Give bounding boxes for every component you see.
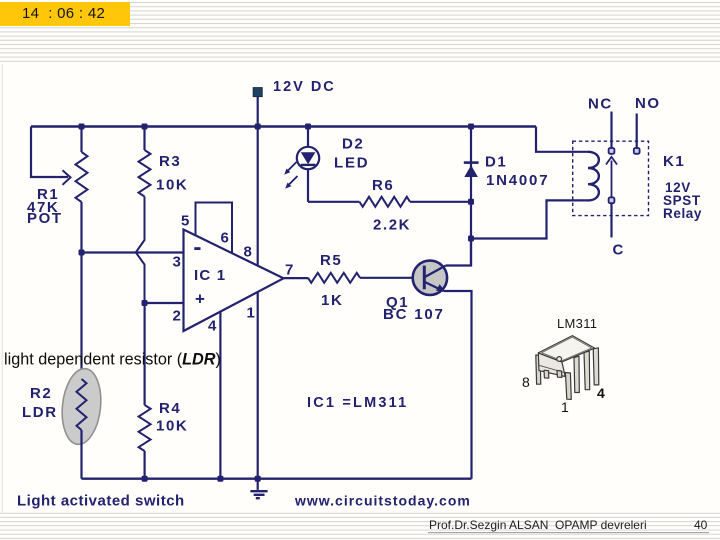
wire D2 bottom [307, 169, 309, 202]
wire divider node to pin 2 [145, 302, 184, 304]
wire collector [446, 239, 471, 266]
resistor R6 [360, 197, 411, 207]
svg-text:C: C [613, 242, 625, 259]
wire relay feed [536, 127, 588, 152]
svg-text:40: 40 [694, 518, 708, 532]
svg-text:IC1 =LM311: IC1 =LM311 [307, 395, 408, 411]
node pin1 ground [255, 476, 261, 482]
node R3 top rail [142, 124, 148, 130]
wire pot wiper feedback [31, 127, 68, 178]
node R1 top rail [79, 124, 85, 130]
svg-text:5: 5 [181, 213, 191, 230]
resistor R4 [139, 405, 151, 451]
relay K1 dashed box [573, 141, 649, 215]
wire R1 bottom to LDR [80, 202, 82, 379]
wire D2 top [307, 127, 309, 148]
wire pin5-6 balance loop [196, 203, 233, 253]
transistor Q1 collector stroke [425, 266, 446, 278]
node pin4 ground [217, 476, 223, 482]
node D1 rail [468, 124, 474, 130]
svg-text:LED: LED [334, 155, 369, 172]
wire NO contact [636, 114, 638, 148]
svg-text:R4: R4 [159, 400, 181, 417]
svg-text:2.2K: 2.2K [373, 217, 411, 234]
svg-text:Relay: Relay [663, 206, 702, 221]
svg-text:1: 1 [561, 399, 569, 415]
node relay return [468, 236, 474, 242]
wire pin 4 to ground rail [219, 311, 221, 478]
svg-text:10K: 10K [156, 418, 188, 435]
LDR envelope [59, 367, 105, 447]
wire emitter [444, 291, 472, 479]
12V DC terminal [253, 88, 262, 97]
svg-text:8: 8 [522, 374, 530, 390]
relay K1 coil [588, 152, 599, 201]
wire NC contact [610, 112, 612, 148]
transistor Q1 base bar [423, 266, 426, 290]
svg-text:Prof.Dr.Sezgin ALSAN OPAMP de: Prof.Dr.Sezgin ALSAN OPAMP devreleri [429, 518, 647, 532]
svg-text:2: 2 [173, 308, 183, 325]
svg-text:IC 1: IC 1 [194, 267, 226, 284]
relay NO contact circle [634, 148, 640, 154]
transistor Q1 emitter stroke [425, 282, 444, 291]
svg-text:4: 4 [597, 385, 605, 401]
wire R3 bottom with crossover jog [136, 197, 145, 304]
wire R1 top [80, 127, 82, 153]
relay common contact circle [609, 197, 615, 203]
svg-text:1K: 1K [321, 292, 343, 309]
wire R4 bottom [144, 451, 146, 479]
wire R6 to D1 node [410, 201, 471, 203]
svg-text:4: 4 [208, 318, 218, 335]
wire LED to R6 [308, 201, 360, 203]
transistor Q1 emitter arrow [436, 284, 445, 291]
timestamp header [0, 2, 130, 26]
node divider mid [142, 300, 148, 306]
svg-text:8: 8 [244, 244, 254, 261]
wire common terminal [610, 203, 612, 237]
svg-text:R3: R3 [159, 153, 181, 170]
LED arrow 1 [284, 162, 296, 175]
svg-text:14 : 06 : 42: 14 : 06 : 42 [22, 5, 105, 22]
svg-text:1: 1 [247, 305, 257, 322]
footer underline [428, 532, 709, 534]
svg-text:POT: POT [27, 210, 63, 227]
pot wiper arrow [63, 170, 71, 185]
resistor R2 LDR element [77, 379, 87, 430]
svg-text:www.circuitstoday.com: www.circuitstoday.com [294, 493, 471, 509]
svg-text:7: 7 [285, 262, 295, 279]
svg-text:K1: K1 [663, 153, 685, 170]
LED D2 circle [297, 147, 319, 169]
svg-text:3: 3 [173, 254, 183, 271]
relay armature arrow [606, 157, 617, 197]
svg-text:D2: D2 [342, 136, 364, 153]
svg-text:12V DC: 12V DC [273, 79, 336, 95]
op-amp U1 triangle [184, 230, 284, 332]
svg-text:NO: NO [635, 95, 661, 112]
wire inverting input node to pin 3 [82, 251, 184, 253]
LED arrow 2 [285, 176, 297, 189]
wire R3 top [143, 127, 145, 151]
wire LDR to ground rail [80, 430, 82, 479]
node inverting input [79, 250, 85, 256]
node D2 rail [305, 124, 311, 130]
svg-text:+: + [195, 290, 207, 309]
LED D2 triangle [301, 152, 316, 164]
svg-text:LM311: LM311 [557, 316, 597, 331]
node D1 R6 [468, 199, 474, 205]
svg-text:Light activated switch: Light activated switch [17, 493, 185, 510]
wire R5 to base [360, 277, 424, 279]
svg-text:1N4007: 1N4007 [486, 172, 549, 189]
resistor R5 [308, 273, 360, 283]
wire R4 top [144, 303, 146, 405]
resistor R3 [139, 150, 151, 197]
svg-text:BC 107: BC 107 [383, 306, 445, 323]
ground [250, 479, 267, 499]
op-amp minus sign [194, 247, 200, 250]
diode D1 cathode bar [464, 161, 479, 164]
node 12V rail [255, 124, 261, 130]
svg-text:10K: 10K [156, 177, 188, 194]
svg-text:6: 6 [221, 230, 231, 247]
svg-text:R5: R5 [320, 252, 342, 269]
node R4 ground [142, 476, 148, 482]
wire pin 1 to ground rail [257, 292, 259, 479]
svg-text:R6: R6 [372, 177, 394, 194]
wire D1 column [470, 127, 472, 266]
svg-text:D1: D1 [485, 154, 507, 171]
svg-text:light dependent resistor (LDR): light dependent resistor (LDR) [4, 351, 221, 369]
wire top supply rail [31, 125, 536, 127]
LED D2 cathode bar [301, 164, 316, 166]
resistor R1 [76, 152, 88, 202]
wire op-amp output [284, 277, 309, 279]
svg-text:NC: NC [588, 96, 613, 113]
transistor Q1 body [413, 261, 447, 295]
svg-text:LDR: LDR [22, 404, 58, 421]
svg-text:R2: R2 [30, 385, 52, 402]
diode D1 triangle [464, 165, 478, 177]
wire bottom ground rail [82, 478, 472, 480]
IC package LM311 drawing [536, 336, 599, 400]
wire 12V stub and pin 8 feed [257, 97, 259, 266]
wire relay coil return [471, 200, 588, 238]
relay NC contact circle [609, 148, 615, 154]
